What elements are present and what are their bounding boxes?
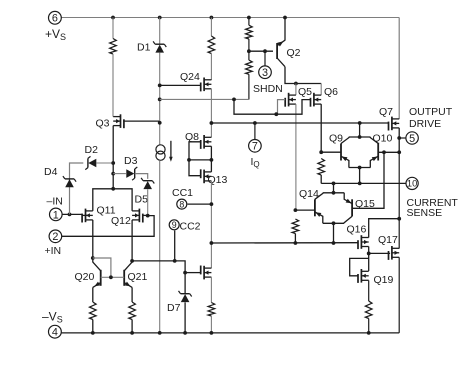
wire D2 to Q3 line [97, 162, 114, 164]
pin 1 -IN [50, 208, 63, 221]
wire pin8 lead [188, 203, 212, 205]
label D4 [44, 166, 58, 178]
resistor R10 [129, 302, 136, 320]
wire CC2 line [132, 261, 185, 294]
transistor Q13 [201, 169, 212, 183]
label IQ [251, 156, 260, 169]
svg-text:9: 9 [172, 220, 177, 230]
svg-text:Q7: Q7 [379, 106, 393, 118]
resistor R5 [246, 60, 253, 74]
label CC1 [172, 187, 193, 199]
node Q21 collector [130, 259, 134, 263]
node Q2 base node [247, 49, 251, 53]
resistor R3 [208, 303, 215, 317]
wire R1 to Q3 drain [112, 54, 114, 117]
wire D5 down [147, 189, 149, 215]
node main-pair [358, 121, 362, 125]
wire Q8 source to Q13 [210, 146, 212, 172]
svg-text:D4: D4 [44, 166, 58, 178]
wire Q6 gate bracket [276, 100, 310, 115]
wire Q14 base [295, 209, 315, 211]
label Q24 [180, 71, 200, 83]
transistor Q24 [201, 78, 212, 92]
wire Q10 base [378, 151, 399, 153]
pin 7 IQ [249, 123, 262, 153]
label +IN [45, 245, 62, 257]
node Q12 gate node [146, 214, 150, 218]
svg-text:2: 2 [52, 231, 58, 243]
node comp line tap [210, 241, 214, 245]
label DRIVE [409, 118, 441, 130]
diode D1 zener [153, 41, 166, 52]
resistor R2 [208, 36, 215, 54]
svg-text:DRIVE: DRIVE [409, 118, 441, 130]
svg-text:4: 4 [52, 327, 58, 339]
svg-text:D2: D2 [85, 144, 99, 156]
wire Q11 source down [92, 220, 94, 258]
label Q14 [299, 188, 319, 200]
svg-text:D3: D3 [124, 155, 138, 167]
transistor Q6 [311, 93, 322, 107]
label Q21 [128, 271, 148, 283]
svg-text:8: 8 [179, 199, 184, 209]
node sense-pair [358, 182, 362, 186]
wire Q19 source down [368, 280, 370, 301]
node Q10 base rail tie [397, 150, 401, 154]
label CC2 [180, 220, 201, 232]
svg-text:Q10: Q10 [373, 133, 393, 145]
wire Q19 gate bracket [350, 258, 369, 275]
svg-text:CC1: CC1 [172, 187, 193, 199]
label Q2 [287, 47, 301, 59]
svg-text:1: 1 [53, 209, 59, 221]
transistor Q14 [315, 193, 323, 224]
svg-text:Q12: Q12 [111, 215, 131, 227]
transistor Q15 [344, 193, 352, 224]
transistor Q17 [389, 246, 400, 260]
wire Q7 source down [398, 128, 400, 152]
wire D4 branch [70, 163, 84, 214]
svg-text:Q2: Q2 [287, 47, 301, 59]
node main line left end [210, 121, 214, 125]
svg-text:6: 6 [52, 13, 58, 25]
node gate tie left [187, 158, 191, 162]
svg-text:Q3: Q3 [96, 117, 110, 129]
wire Q9 base [321, 151, 341, 153]
wire bias line mid [159, 53, 161, 145]
node Q3 gate tap [158, 121, 162, 125]
wire R4 to node [248, 39, 250, 60]
label D2 [85, 144, 99, 156]
wire Q16 source down [368, 247, 370, 272]
svg-text:Q5: Q5 [298, 86, 312, 98]
label Q11 [97, 204, 116, 216]
svg-text:D5: D5 [135, 194, 149, 206]
wire D7 to rail [184, 302, 186, 333]
resistor R8 [365, 301, 372, 319]
node D7 rail [183, 331, 187, 335]
wire Q17 column [398, 152, 400, 248]
wire main node line [211, 122, 388, 124]
node gate tie right [210, 158, 214, 162]
wire SHDN gray [160, 98, 249, 100]
node Q14 base node [294, 208, 298, 212]
wire Q24 source to Q8 drain [210, 89, 212, 138]
wire drain box [93, 189, 132, 211]
label SENSE [407, 207, 443, 219]
svg-text:3: 3 [262, 67, 268, 79]
node rail-D1 [158, 16, 162, 20]
svg-text:Q21: Q21 [128, 271, 148, 283]
transistor Q8 [201, 135, 212, 149]
current source I1 [156, 145, 165, 161]
label Q3 [96, 117, 110, 129]
node rail-Rs [247, 16, 251, 20]
transistor Q2 [277, 40, 285, 66]
wire R8 to rail [368, 319, 370, 333]
wire comp line [211, 242, 358, 244]
label +Vs [45, 27, 66, 42]
wire R10 to rail [131, 320, 133, 333]
wire Q5 gate bracket [278, 100, 286, 115]
svg-text:OUTPUT: OUTPUT [409, 106, 453, 118]
wire sense to pair14 [333, 183, 335, 192]
wire base tie [101, 276, 125, 278]
label Q17 [378, 234, 398, 246]
label Q15 [355, 198, 375, 210]
label Q10 [373, 133, 393, 145]
svg-text:CC2: CC2 [180, 220, 201, 232]
wire Q20 emitter down [92, 287, 94, 302]
transistor Q10 [370, 137, 378, 168]
wire gates drop [234, 99, 276, 114]
resistor R1 [110, 39, 117, 55]
wire pair bottom drop [359, 168, 361, 184]
diode D7 zener [179, 291, 192, 302]
wire R2 top [210, 18, 212, 37]
transistor Q11 [82, 209, 93, 223]
transistor Q5 [285, 93, 296, 107]
transistor Q18 [201, 266, 212, 280]
node R7-comp [294, 241, 298, 245]
wire Q12 gate lead [143, 214, 148, 216]
svg-text:7: 7 [252, 141, 258, 153]
node R8 rail [367, 331, 371, 335]
svg-text:Q19: Q19 [374, 274, 394, 286]
wire Q16 drain up [369, 219, 400, 238]
label Q16 [347, 224, 367, 236]
wire pair bottom line [349, 167, 371, 169]
label D3 [124, 155, 138, 167]
wire Q15 base [352, 152, 384, 208]
node pair bottom [358, 166, 362, 170]
resistor R7 [292, 219, 299, 234]
wire R7 down [294, 234, 296, 244]
wire Q24 gate [160, 84, 201, 85]
wire Q6 source down [320, 104, 322, 152]
label Q9 [329, 133, 343, 145]
wire Q20 collector stub [92, 258, 94, 262]
node CC1 tap [210, 202, 214, 206]
wire pair top line [349, 136, 371, 138]
wire Q21 collector stub [131, 261, 133, 263]
wire R3 to rail [210, 316, 212, 333]
node rail-R1 [111, 16, 115, 20]
node R9 rail [91, 331, 95, 335]
transistor Q21 [124, 262, 132, 287]
label Q8 [185, 131, 199, 143]
wire pair14 top line [323, 192, 344, 194]
transistor Q20 [93, 262, 101, 287]
pin 5 OUTPUT DRIVE [399, 132, 418, 145]
svg-text:Q20: Q20 [75, 271, 95, 283]
label SHDN [253, 83, 283, 95]
transistor Q9 [341, 137, 349, 168]
wire R9 to rail [92, 320, 94, 333]
label CURRENT [407, 197, 459, 209]
wire Q18 gate lead [185, 272, 201, 274]
pin 9 CC2 [169, 220, 179, 230]
label D5 [135, 194, 149, 206]
node D2 node [111, 161, 115, 165]
resistor R9 [90, 302, 97, 320]
wire pair14 bottom drop [333, 223, 335, 243]
pin 6 +Vs [49, 11, 62, 24]
wire Q17 source down [398, 257, 400, 333]
node rail-R2 [210, 16, 214, 20]
svg-text:D7: D7 [167, 302, 181, 314]
node Q5 gate [274, 112, 278, 116]
wire Q12 source down [131, 220, 133, 261]
pin 10 CURRENT SENSE [406, 177, 418, 189]
wire Q8 gate bracket [189, 142, 201, 160]
node Q9 base node [319, 150, 323, 154]
wire R2 to Q24 [210, 54, 212, 81]
label -IN [47, 196, 63, 208]
wire R1 top [112, 18, 114, 39]
node SHDN res tap [158, 98, 162, 102]
node IQ tap [253, 121, 257, 125]
transistor Q3 [113, 114, 124, 128]
svg-text:5: 5 [409, 133, 415, 145]
label Q13 [208, 174, 228, 186]
node A [367, 252, 371, 256]
wire Q5 drain stub [295, 84, 297, 96]
wire bias line low [159, 160, 161, 333]
wire gate tie [189, 159, 211, 161]
transistor Q19 [358, 269, 369, 283]
wire Q21 emitter down [131, 287, 133, 302]
node pin9-CC2 line [173, 259, 177, 263]
wire D3 to D5 [135, 174, 148, 179]
transistor Q12 [132, 209, 143, 223]
wire Q11 gate lead [83, 214, 90, 216]
wire sense line [321, 182, 406, 184]
wire Q5 source down [295, 104, 297, 210]
svg-text:D1: D1 [137, 42, 151, 54]
node D7 gate tap [183, 271, 187, 275]
wire Q2 base [249, 50, 273, 52]
wire Q3 gate to bias line [124, 121, 160, 123]
pin 2 +IN [49, 230, 62, 243]
label Q5 [298, 86, 312, 98]
diode D5 zener [141, 178, 154, 189]
transistor Q16 [358, 235, 369, 249]
svg-text:SENSE: SENSE [407, 207, 443, 219]
wire Q18 source to R [210, 277, 212, 302]
node sense-line Q16 [397, 217, 401, 221]
node Q5 drain node [294, 82, 298, 86]
transistor Q7 [389, 117, 400, 131]
node pin5 tap [397, 136, 401, 140]
wire rail right corner [398, 18, 400, 120]
svg-text:Q16: Q16 [347, 224, 367, 236]
wire pin3 drop [264, 51, 266, 66]
resistor R6 [318, 159, 325, 176]
label Q19 [374, 274, 394, 286]
pin 3 SHDN [259, 66, 272, 79]
svg-text:10: 10 [407, 179, 417, 189]
svg-text:–IN: –IN [47, 196, 63, 208]
label D7 [167, 302, 181, 314]
node base tie [109, 275, 113, 279]
svg-text:SHDN: SHDN [253, 83, 283, 95]
node R3 rail [210, 331, 214, 335]
wire R5 down [248, 74, 250, 99]
wire Q3 source down [112, 126, 114, 189]
label -Vs [42, 310, 63, 325]
pin 4 -Vs [49, 325, 62, 338]
wire Q2 emitter up [284, 18, 286, 41]
svg-text:Q6: Q6 [324, 86, 338, 98]
label Q6 [324, 86, 338, 98]
node Q24 gate tap [158, 84, 162, 88]
wire D1 top [159, 18, 161, 45]
node R10 rail [130, 331, 134, 335]
diode D2 zener [85, 156, 96, 169]
svg-text:Q17: Q17 [378, 234, 398, 246]
svg-text:Q24: Q24 [180, 71, 200, 83]
node D3 node [111, 172, 115, 176]
wire Q13 drain down [210, 181, 212, 268]
wire R6 down [320, 175, 322, 183]
wire pin1 lead [62, 213, 83, 215]
wire D3 lead [113, 173, 126, 175]
wire Rs lead [248, 18, 250, 26]
label D1 [137, 42, 151, 54]
pin 8 CC1 [177, 199, 187, 209]
node D4 tap [68, 213, 72, 217]
svg-text:Q14: Q14 [299, 188, 319, 200]
diode D3 zener [126, 167, 137, 180]
wire Q13 gate bracket [189, 160, 201, 176]
resistor R4 [246, 25, 253, 39]
svg-text:Q9: Q9 [329, 133, 343, 145]
label Q20 [75, 271, 95, 283]
node Q5Q6 gate tap [232, 98, 236, 102]
wire base bracket [93, 258, 111, 277]
node pair14 top [332, 191, 336, 195]
node pair14-comp [332, 241, 336, 245]
label Q7 [379, 106, 393, 118]
wire +Vs top rail [61, 17, 399, 19]
node pair14 bottom [332, 221, 336, 225]
svg-text:Q13: Q13 [208, 174, 228, 186]
wire pair14 bottom line [323, 222, 344, 224]
svg-text:Q8: Q8 [185, 131, 199, 143]
label OUTPUT [409, 106, 453, 118]
wire pin9 drop [174, 231, 176, 261]
svg-text:+IN: +IN [45, 245, 62, 257]
wire Q2 collector [285, 67, 321, 84]
node pair top [358, 135, 362, 139]
node rail-Q2 [283, 16, 287, 20]
wire -Vs rail [61, 332, 399, 334]
node Q10 base tie [382, 150, 386, 154]
node bias to -Vs rail [158, 331, 162, 335]
node Q20 collector [91, 256, 95, 260]
wire nodeA to Q17 gate [369, 252, 390, 254]
wire pin2 lead [62, 216, 155, 237]
node pin3 tap [263, 49, 267, 53]
wire main to pair [359, 123, 361, 137]
node sense-Q14 top [332, 182, 336, 186]
wire Q6 drain stub [320, 84, 322, 96]
label Q12 [111, 215, 131, 227]
current arrow [169, 141, 173, 162]
diode D4 zener [63, 176, 76, 187]
node box top [111, 187, 115, 191]
